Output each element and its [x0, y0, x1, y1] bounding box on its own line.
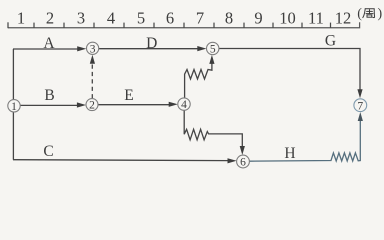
node 5	[207, 42, 219, 55]
svg-text:(: (	[357, 7, 362, 22]
activity H arrow with terminal wavy line up into node 7	[250, 112, 363, 161]
svg-text:H: H	[284, 145, 295, 162]
node 1	[8, 100, 20, 113]
axis week numbers 1-12	[17, 8, 351, 27]
svg-text:): )	[378, 7, 383, 22]
svg-text:D: D	[146, 35, 157, 52]
svg-text:5: 5	[210, 44, 216, 56]
axis unit label (zhou = week)	[357, 7, 382, 22]
svg-text:E: E	[124, 87, 133, 104]
svg-text:B: B	[44, 87, 54, 104]
svg-text:3: 3	[77, 8, 85, 27]
svg-text:4: 4	[181, 99, 187, 111]
activity B arrow	[20, 102, 86, 107]
activity D arrow	[99, 46, 206, 51]
svg-text:7: 7	[196, 8, 204, 27]
svg-text:1: 1	[17, 8, 25, 27]
svg-text:7: 7	[357, 100, 363, 112]
svg-text:10: 10	[279, 8, 296, 27]
activity A arrow	[13, 46, 86, 51]
time axis line	[8, 22, 360, 27]
axis ticks	[8, 22, 331, 28]
node 6	[237, 155, 250, 169]
node 4	[178, 98, 190, 111]
svg-text:2: 2	[46, 8, 54, 27]
free float wavy line from node 4 down to node 6	[184, 110, 245, 155]
svg-text:1: 1	[11, 101, 17, 113]
svg-text:5: 5	[137, 8, 145, 27]
activity G arrow (horizontal then down into node 7)	[219, 49, 363, 99]
svg-text:6: 6	[166, 8, 174, 27]
svg-text:6: 6	[240, 157, 246, 169]
svg-text:11: 11	[308, 8, 324, 27]
svg-text:G: G	[325, 33, 336, 50]
wire: vertical from node 1 up to activity A row	[12, 49, 14, 100]
node 7	[354, 99, 367, 113]
activity E arrow	[98, 102, 178, 107]
wire: vertical from node 1 down to activity C row	[12, 112, 14, 160]
svg-text:2: 2	[89, 100, 95, 112]
node 3	[87, 42, 99, 55]
free float wavy line from node 4 up to node 5	[185, 55, 215, 98]
svg-text:9: 9	[254, 8, 262, 27]
svg-text:8: 8	[225, 8, 233, 27]
svg-text:A: A	[43, 35, 55, 52]
svg-text:12: 12	[335, 8, 352, 27]
svg-text:C: C	[43, 143, 53, 160]
dummy activity dashed arrow from node 2 to node 3	[90, 55, 95, 99]
node 2	[86, 99, 98, 112]
activity C arrow	[13, 158, 237, 163]
svg-text:4: 4	[107, 8, 115, 27]
svg-text:3: 3	[90, 43, 96, 55]
